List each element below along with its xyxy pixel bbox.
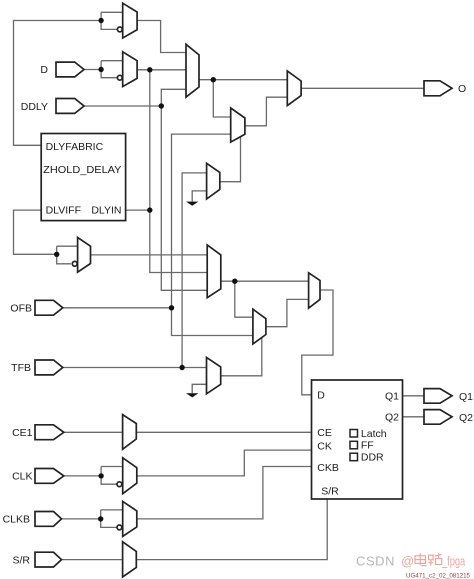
svg-text:DDLY: DDLY [21,101,48,113]
wire M13 input bracket [101,466,123,468]
input pin TFB [35,360,63,375]
mux M7 [207,245,221,298]
mux M1 [123,3,137,38]
svg-text:CK: CK [317,441,332,453]
mux M13 [123,458,137,494]
wire IDDR Q2 to pin [403,416,425,418]
svg-text:DDR: DDR [361,452,384,464]
mux M10 [207,357,221,393]
ZHOLD_DELAY block [41,134,125,221]
wire CE1 pin to mux M12 [64,431,123,433]
svg-text:CKB: CKB [317,462,339,474]
svg-text:Q1: Q1 [385,391,399,403]
svg-text:S/R: S/R [321,486,339,498]
wire M10 output to mux M8 select [221,336,262,376]
svg-text:TFB: TFB [11,362,31,374]
wire M5 output to O pin [301,87,424,89]
wire CLK pin to bracket [64,475,101,477]
ground below M9 [186,202,198,206]
wire OFB riser up to mux M4 input 2 [172,134,231,308]
mux M3 [186,44,199,97]
svg-text:CLK: CLK [12,471,32,483]
wire M14 input bracket [101,509,123,511]
mux M14 [123,501,137,536]
wire M7-out riser to mux M8 input 1 [235,281,253,317]
wire IDDR Q1 to pin [403,395,425,397]
wire TFB to mux M10 input 1 [63,367,207,369]
node junction dots [54,18,238,522]
svg-text:Q2: Q2 [459,412,473,424]
svg-text:_fpga: _fpga [441,554,465,569]
svg-text:S/R: S/R [12,554,30,566]
svg-text:Q1: Q1 [459,391,473,403]
checkbox DDR [350,453,358,461]
mux M11 [309,273,320,308]
mux M8 [253,309,266,344]
output pin Q1 [424,389,452,404]
svg-text:UG471_c2_02_081215: UG471_c2_02_081215 [406,572,470,579]
input pin DDLY [56,99,84,114]
svg-text:DLVIFF: DLVIFF [46,205,81,217]
wire OFB to junction [63,307,172,309]
input pin CLKB [35,512,62,527]
wire M1 output to mux M3 input 1 [137,21,186,53]
wire M14 output to IDDR CKB port [137,467,312,519]
input pin CE1 [35,425,64,440]
input pin D [56,62,84,77]
output pin Q2 [424,410,452,425]
svg-text:DLYIN: DLYIN [91,205,121,217]
mux M6 [78,237,91,272]
wire M1 input bracket [101,11,123,13]
svg-text:D: D [317,390,325,402]
svg-text:CE: CE [317,427,332,439]
wire M13 output to IDDR CK port [137,450,312,476]
svg-text:Latch: Latch [361,428,387,440]
output pin O [424,81,452,96]
svg-text:DLYFABRIC: DLYFABRIC [46,141,104,153]
mux M15 [123,542,137,577]
input pin S/R [35,552,62,567]
wire TFB riser up to mux M9 input 1 [182,173,207,368]
mux M2 [123,52,137,87]
svg-text:CE1: CE1 [12,427,33,439]
wire M12 output to IDDR CE port [136,431,311,433]
wire M2-out riser to DLYIN and mux M7 input 2 [150,70,207,273]
mux M9 [207,163,220,199]
watermark CSDN @dianlu_fpga [356,553,470,579]
wire M9 ground stub [192,191,206,202]
wire M4 output to mux M5 input 2 [245,97,287,126]
ground below M10 [186,393,198,397]
wire DLYIN stub [126,209,150,211]
mux M5 [287,71,301,106]
inverter bubble on M14 [117,525,122,530]
checkbox FF [350,441,358,449]
wire M7 output to mux M11 input 1 [221,280,309,282]
mux M12 [123,415,137,450]
wire M2 output to mux M3 input 2 [137,69,186,71]
wire M15 output to IDDR S/R port [136,499,327,560]
input pin OFB [35,300,63,315]
wire D pin to bracket [84,69,101,71]
svg-text:CSDN: CSDN [356,554,395,569]
wire DDLY riser down to mux M7 input 3 [161,106,207,290]
svg-text:OFB: OFB [10,303,32,315]
checkbox Latch [350,430,358,438]
IDDR register block U1 [312,380,403,499]
wire S/R pin to mux M15 [62,559,123,561]
svg-text:ZHOLD_DELAY: ZHOLD_DELAY [43,164,121,176]
wire M9 output to mux M4 select [220,136,241,182]
wire CLKB pin to bracket [62,518,101,520]
input pin CLK [35,469,64,484]
mux M4 [231,108,245,142]
svg-text:D: D [40,64,48,76]
wire top-left feed to DLYFABRIC and mux M1 [14,21,102,146]
inverter bubble on M1 [117,27,122,32]
wire M6 input bracket [57,245,78,247]
svg-text:FF: FF [361,440,374,452]
svg-text:@: @ [401,554,414,569]
wire DLVIFF to mux M6 bracket [14,210,57,254]
svg-text:Q2: Q2 [385,412,399,424]
wire OFB riser down to mux M8 input 2 [172,308,253,336]
wire DDLY to mux M3 input 3 [84,89,186,106]
wire M11 output to IDDR D port [302,290,333,395]
wire M8 output to mux M11 input 2 [266,299,309,326]
wire M3 output to mux M5 input 1 [199,79,287,81]
svg-text:CLKB: CLKB [3,514,30,526]
wire M10 ground stub [192,384,206,393]
inverter bubble on M2 [117,75,122,80]
svg-text:O: O [458,83,466,95]
wire M3-out riser to mux M4 input 1 [213,80,230,117]
wire M6 output to mux M7 input 1 [91,254,208,256]
inverter bubble on M6 [72,261,77,266]
inverter bubble on M13 [117,482,122,487]
wire M2 input bracket [101,60,123,62]
